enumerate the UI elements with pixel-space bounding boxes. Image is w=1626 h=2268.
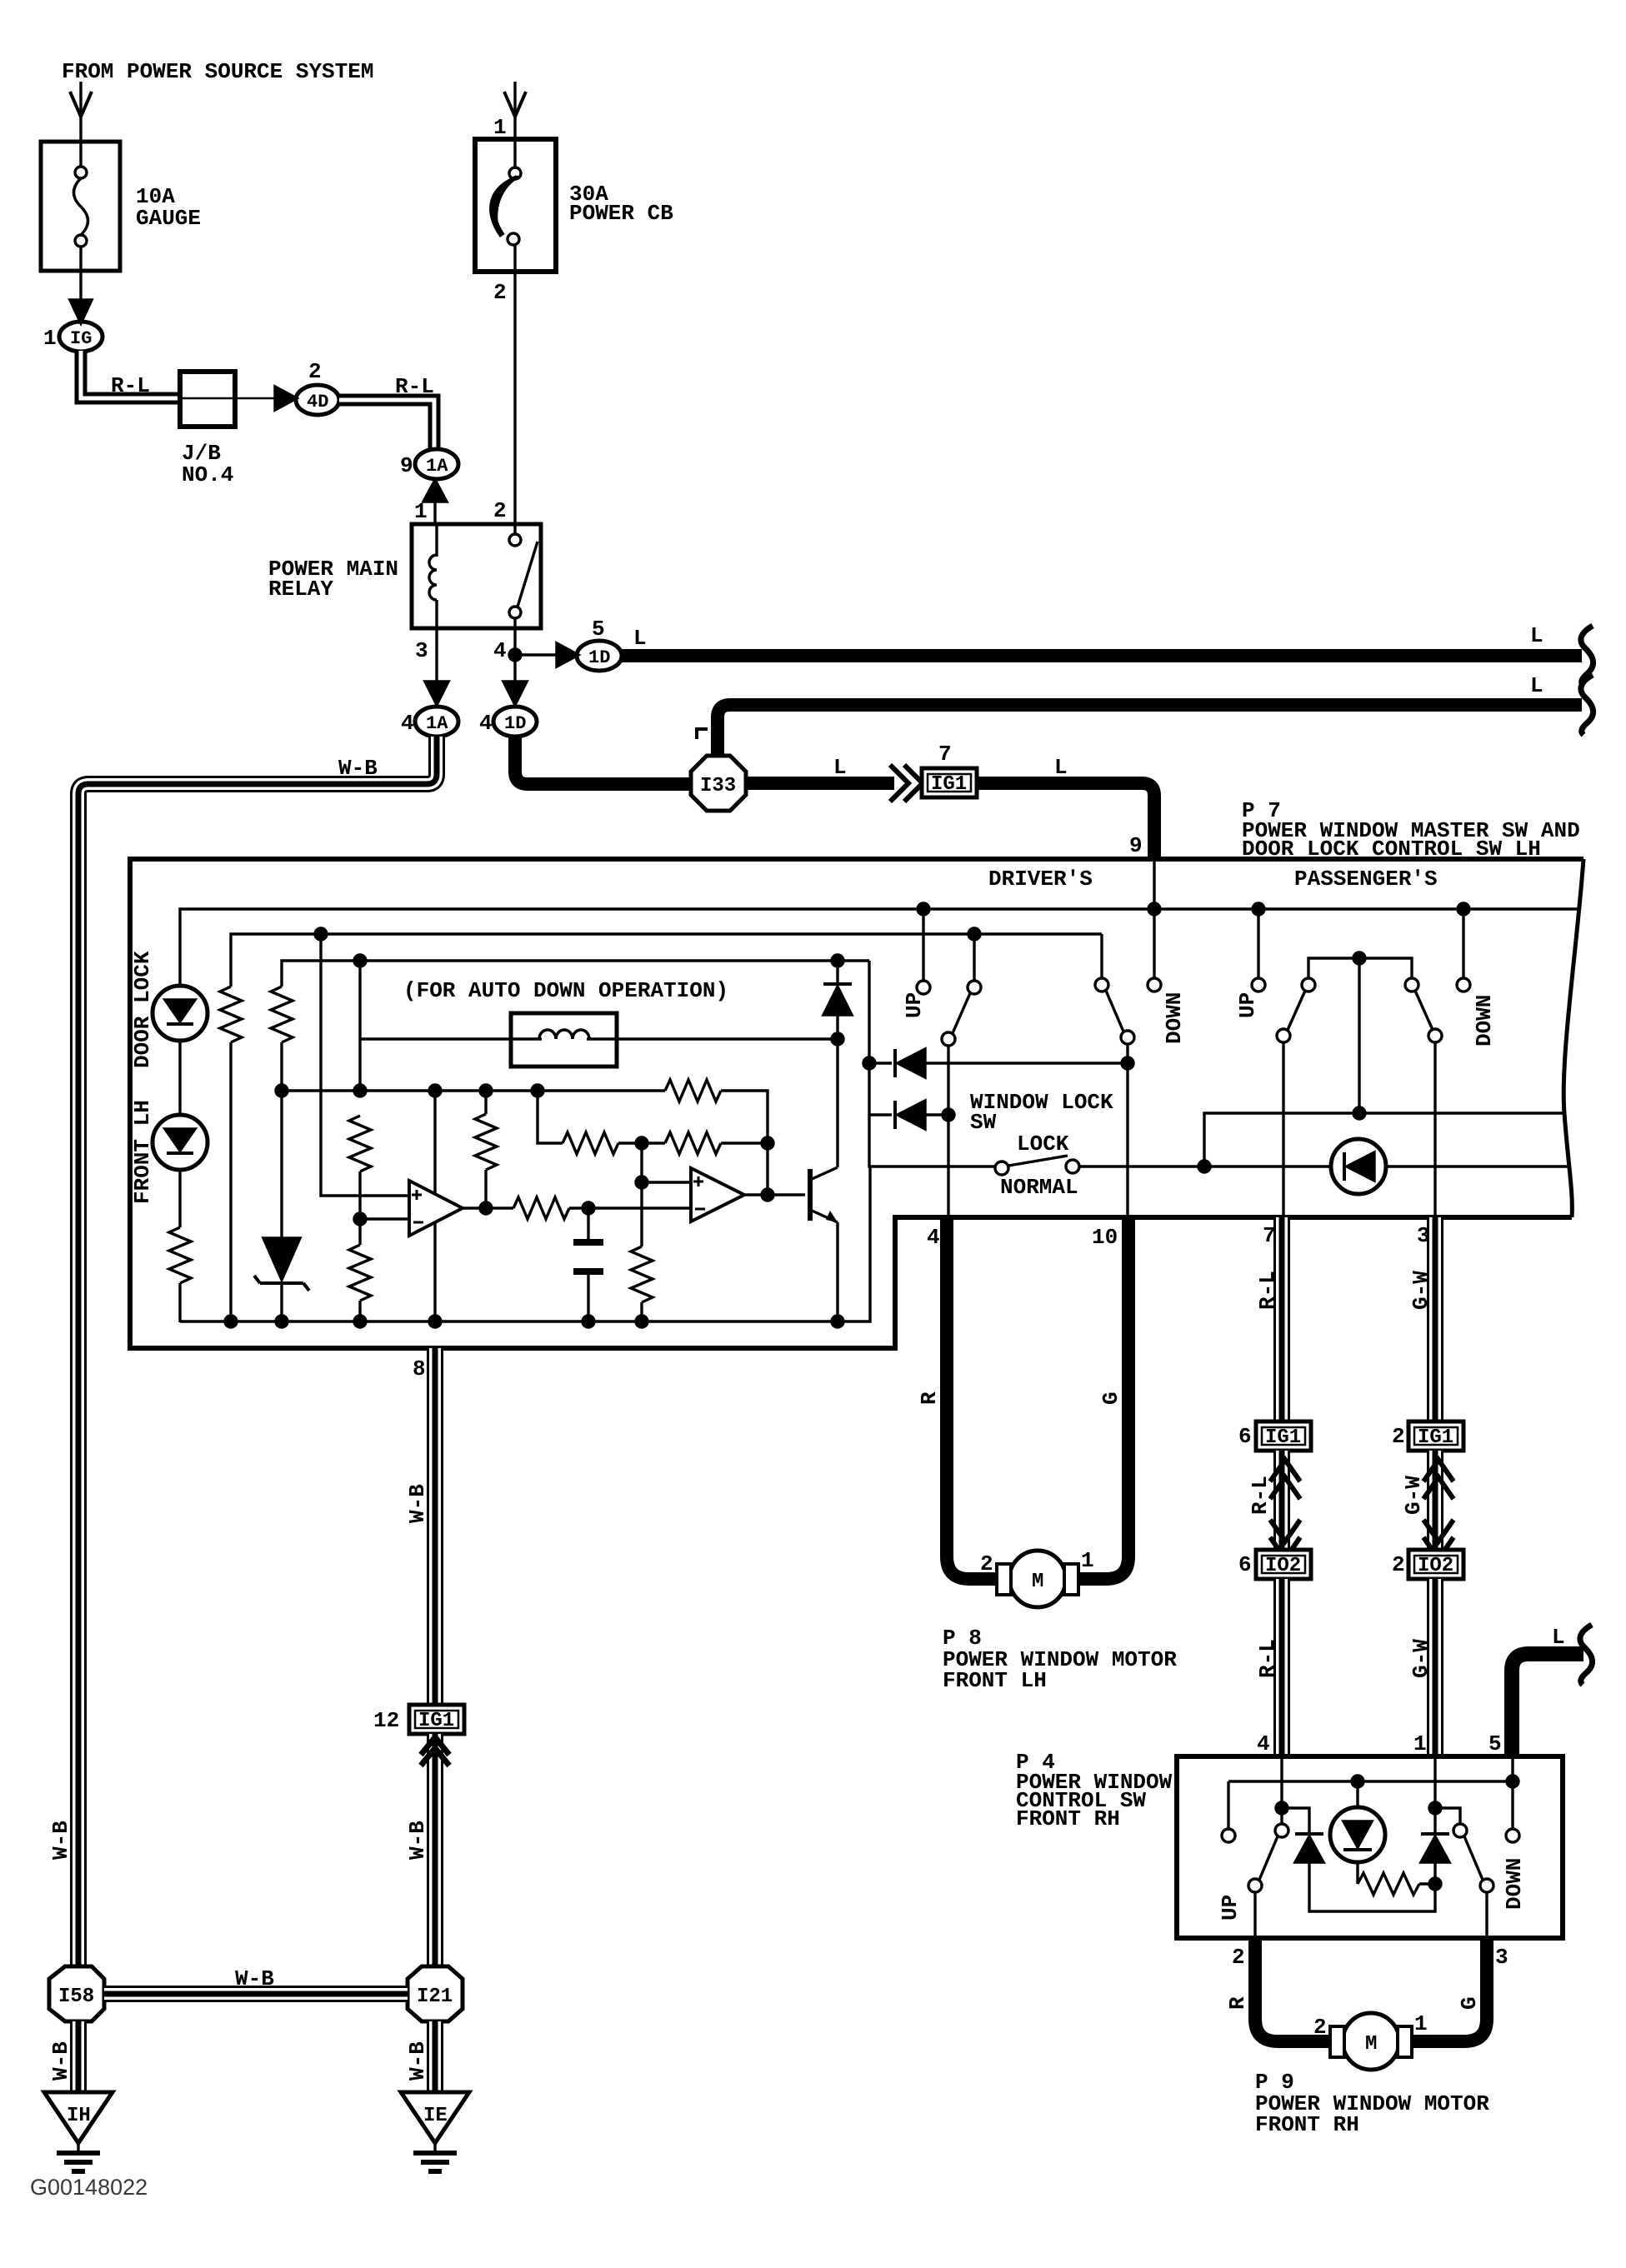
svg-text:3: 3 — [1495, 1945, 1508, 1970]
svg-text:4: 4 — [493, 638, 507, 663]
bus 1 (top supply bus) — [180, 909, 1578, 986]
connector I33 octagon — [691, 756, 746, 811]
arrow into IG — [70, 300, 92, 323]
chevron up into IG1 — [421, 1737, 449, 1755]
svg-text:FRONT LH: FRONT LH — [943, 1668, 1047, 1693]
driver switch arm left — [973, 941, 975, 981]
resistor R6 column 432 lower — [349, 1245, 371, 1301]
wire PTC to resistor — [1356, 1862, 1358, 1884]
bus 3 — [282, 961, 869, 987]
passenger UP stub — [1257, 909, 1259, 978]
wire pin3 column — [1433, 1042, 1436, 1217]
P4 diode D4 feed — [1282, 1808, 1309, 1832]
PTC circuit breaker (P4) — [1356, 1781, 1358, 1807]
junction dot output2 — [762, 1189, 773, 1201]
P4 pin4 entry — [1280, 1756, 1283, 1824]
svg-text:3: 3 — [415, 638, 428, 663]
connector IO2 (pin 2) — [1408, 1550, 1463, 1579]
svg-text:I21: I21 — [417, 1986, 453, 2008]
junction dot relay pin4 — [509, 649, 521, 661]
passenger feed riser — [1204, 1113, 1564, 1166]
svg-text:I58: I58 — [58, 1986, 94, 2008]
harness arc (line 1 end) — [1581, 626, 1593, 686]
svg-text:2: 2 — [980, 1551, 993, 1576]
svg-text:1: 1 — [43, 326, 57, 351]
op-amp U2 — [691, 1168, 744, 1221]
ground IE — [401, 2092, 469, 2143]
wire R-L double (IO2 to P4 pin 4) — [1273, 1579, 1290, 1756]
diode D5 — [1421, 1832, 1449, 1836]
wire pin7 column — [1282, 1042, 1284, 1217]
svg-text:6: 6 — [1238, 1552, 1252, 1577]
svg-text:DOWN: DOWN — [1162, 992, 1187, 1044]
junction dot D1/pin10 column — [1122, 1057, 1133, 1069]
junction dot lock/passenger feed — [1198, 1161, 1210, 1172]
junction dot D2/pin4 column — [943, 1109, 954, 1121]
svg-text:9: 9 — [1129, 833, 1143, 858]
connector I58 octagon — [49, 1966, 104, 2021]
svg-text:SW: SW — [970, 1110, 997, 1135]
svg-text:2: 2 — [308, 359, 322, 384]
coil L1 — [360, 1037, 542, 1040]
passenger pivot column — [1358, 958, 1360, 1113]
svg-text:1: 1 — [1414, 2011, 1428, 2036]
junction dot coil/diode/collector — [832, 1033, 843, 1045]
svg-text:L: L — [833, 755, 847, 780]
svg-text:10: 10 — [1092, 1225, 1118, 1250]
arrow down into 1D (lower) — [503, 682, 527, 705]
svg-text:W-B: W-B — [405, 1484, 430, 1523]
svg-text:4: 4 — [927, 1225, 940, 1250]
junction dot row2 mid — [636, 1137, 648, 1149]
P4 left stub — [1227, 1781, 1229, 1829]
wire relay pin4 down — [513, 628, 516, 683]
wire G-W double (pin3 to IG1) — [1427, 1217, 1443, 1421]
resistor R11 column 770 — [640, 1182, 643, 1246]
junction dot resistor/D5 — [1429, 1878, 1441, 1890]
connector IG1 (pin 2) — [1408, 1421, 1463, 1451]
svg-text:FRONT LH: FRONT LH — [130, 1100, 155, 1204]
junction dot bus4/432 — [354, 1085, 366, 1097]
svg-text:4: 4 — [401, 711, 414, 736]
svg-text:4: 4 — [1257, 1731, 1270, 1756]
connector IO2 (pin 6) — [1256, 1550, 1311, 1579]
svg-text:W-B: W-B — [338, 756, 378, 781]
junction dot opamp2 plus — [636, 1176, 648, 1188]
wire PTC to right edge — [1386, 1165, 1568, 1167]
junction dot pivot bus — [1353, 952, 1365, 964]
svg-text:FRONT RH: FRONT RH — [1016, 1806, 1120, 1831]
corner elbow mark — [697, 729, 708, 739]
junction dot bottom/706 — [583, 1316, 594, 1327]
wire pin4 column — [947, 1046, 949, 1217]
junction dot cap node — [583, 1202, 594, 1214]
wire R-L from 4D to 1A (thick with white core) — [339, 400, 434, 449]
svg-text:NO.4: NO.4 — [182, 462, 233, 487]
chevron arrows between IG1 and IO2 (G-W) — [1427, 1451, 1443, 1550]
svg-text:I33: I33 — [700, 775, 736, 797]
svg-text:L: L — [633, 626, 647, 651]
svg-text:2: 2 — [493, 498, 507, 523]
wire L from I33 to IG1 connector — [744, 777, 894, 790]
junction dot bus1/UP passenger — [1253, 903, 1264, 915]
svg-text:R-L: R-L — [1248, 1476, 1273, 1515]
junction dot bus1/pin9 — [1148, 903, 1160, 915]
relay box POWER MAIN RELAY — [412, 524, 541, 628]
P4 top bus — [1228, 1780, 1513, 1782]
PTC circuit breaker (P7) — [1331, 1139, 1386, 1194]
wire D4 anode to resistor node — [1309, 1862, 1435, 1911]
junction dot bottom/338 — [276, 1316, 288, 1327]
svg-text:UP: UP — [902, 992, 927, 1018]
junction dot bus2/opamp column — [315, 928, 327, 940]
flyback diode D3 — [836, 961, 838, 984]
window lock switch — [995, 1161, 1008, 1175]
junction dot output/R7 — [480, 1202, 492, 1214]
wire down arm to pin 3 — [1485, 1892, 1488, 1938]
bottom bus — [180, 1166, 870, 1321]
svg-text:RELAY: RELAY — [268, 577, 333, 602]
chevron arrows between IG1 and IO2 (R-L) — [1273, 1451, 1290, 1550]
transistor Q1 — [808, 1169, 813, 1221]
svg-text:1D: 1D — [504, 713, 526, 734]
bus 2 — [231, 934, 1102, 987]
relay switch — [513, 524, 516, 534]
diode D2 — [869, 1113, 892, 1116]
connector 1A with pin 9 — [415, 449, 458, 479]
svg-text:(FOR AUTO DOWN OPERATION): (FOR AUTO DOWN OPERATION) — [403, 978, 728, 1003]
ground IH — [44, 2092, 113, 2143]
feed arrow (left power source) — [70, 92, 92, 117]
wire R thick (pin4 to motor) — [947, 1217, 1005, 1579]
svg-text:2: 2 — [1232, 1945, 1245, 1970]
auto-down relay coil box — [511, 1013, 617, 1067]
wire bus4 corner column down — [538, 1091, 563, 1143]
svg-text:G: G — [1098, 1391, 1123, 1405]
svg-text:M: M — [1032, 1571, 1043, 1593]
wire W-B double (I58 to ground IH) — [70, 2021, 87, 2092]
wire pin9 inside box — [1153, 859, 1155, 909]
P4 down switch arm — [1453, 1824, 1467, 1837]
svg-text:L: L — [1054, 755, 1068, 780]
wire up arm to pin 2 — [1253, 1892, 1256, 1938]
wire to opamp1 minus — [358, 1171, 361, 1245]
svg-text:L: L — [1530, 623, 1543, 648]
svg-text:W-B: W-B — [405, 1821, 430, 1860]
resistor R4 (feedback on bus4) — [665, 1080, 721, 1102]
wire G-W double (IO2 to P4 pin 1) — [1427, 1579, 1443, 1756]
svg-text:4D: 4D — [307, 392, 328, 412]
arrow into 1D — [557, 643, 578, 667]
svg-text:M: M — [1365, 2033, 1377, 2056]
svg-text:9: 9 — [400, 453, 413, 478]
connector IG with pin 1 — [59, 322, 103, 352]
wire R thick (P4 pin2 to motor P9) — [1255, 1938, 1337, 2041]
junction dot opamp1 minus — [354, 1213, 366, 1225]
wire W-B double (IG1 to I21) — [427, 1734, 443, 1968]
passenger switch arm right — [1405, 978, 1418, 992]
arrow into 4D — [275, 387, 297, 410]
arrow up into 1A from relay pin 1 — [423, 480, 447, 502]
wire W-B double (I21 to ground IE) — [427, 2021, 443, 2092]
junction dot bottom/216 handled — [225, 1316, 237, 1327]
svg-text:1: 1 — [1413, 1731, 1427, 1756]
junction dot bottom/522 — [429, 1316, 441, 1327]
zener diode Z1 — [263, 1238, 300, 1280]
svg-text:1A: 1A — [426, 456, 448, 477]
wire fuse to IG — [79, 271, 82, 300]
svg-text:R-L: R-L — [1255, 1639, 1280, 1678]
svg-text:FROM POWER SOURCE SYSTEM: FROM POWER SOURCE SYSTEM — [62, 59, 373, 84]
connector IG1 with pin 7 — [922, 768, 977, 797]
driver switch arm right — [1095, 978, 1108, 992]
svg-text:R-L: R-L — [111, 373, 150, 398]
bus 4 — [282, 1089, 665, 1092]
P4 box — [1177, 1756, 1563, 1938]
wire pin10 column — [1126, 1044, 1128, 1217]
junction dot passenger pivot — [1353, 1107, 1365, 1119]
svg-text:7: 7 — [938, 742, 952, 767]
wire CB to relay pin 2 — [513, 272, 516, 524]
svg-text:2: 2 — [1313, 2015, 1327, 2040]
svg-text:IH: IH — [67, 2105, 91, 2127]
svg-text:12: 12 — [373, 1708, 399, 1733]
resistor R1 (LED column) — [169, 1227, 191, 1283]
junction dot bus1/DOWN passenger — [1458, 903, 1469, 915]
connector IG1 (pin 6) — [1256, 1421, 1311, 1451]
svg-text:LOCK: LOCK — [1017, 1132, 1069, 1156]
junction dot bus2/driver arm — [968, 928, 980, 940]
svg-text:IG1: IG1 — [931, 773, 967, 796]
wire feed to fuse — [79, 82, 82, 142]
svg-text:G00148022: G00148022 — [30, 2175, 148, 2200]
P4 pin1 entry — [1433, 1756, 1436, 1832]
svg-text:G-W: G-W — [1408, 1639, 1433, 1678]
wire G thick (P4 pin3 to motor P9) — [1405, 1938, 1487, 2041]
passenger switch arm left — [1302, 978, 1315, 992]
junction dot bus3/coil column — [354, 955, 366, 967]
svg-text:L: L — [1552, 1625, 1565, 1650]
opamp1 output wire — [463, 1206, 513, 1209]
connector 1D (lower) with pin 4 — [493, 707, 537, 737]
wire G thick (pin10 to motor) — [1070, 1217, 1128, 1579]
resistor R3 — [271, 987, 293, 1042]
svg-text:1D: 1D — [588, 647, 610, 668]
connector IG1 (pin 12) — [409, 1705, 464, 1734]
wire L thick (1D to right edge) — [622, 649, 1582, 662]
svg-text:1: 1 — [1081, 1548, 1094, 1573]
diode D4 — [1295, 1832, 1323, 1836]
svg-text:UP: UP — [1235, 992, 1260, 1018]
svg-text:IG1: IG1 — [1265, 1426, 1301, 1449]
svg-text:R-L: R-L — [1255, 1271, 1280, 1310]
connector 1A (lower) with pin 4 — [415, 707, 458, 737]
wire opamp1 plus feed — [321, 934, 409, 1196]
feed arrow (right power source) — [504, 92, 526, 117]
svg-text:IG1: IG1 — [1418, 1426, 1453, 1449]
motor P9 — [1343, 2013, 1399, 2070]
resistor R7 column 583 — [484, 1091, 487, 1114]
svg-text:5: 5 — [592, 617, 605, 642]
arrow down into 1A — [425, 682, 448, 705]
wire feed to circuit breaker — [513, 82, 516, 139]
opamp2 output wire — [744, 1193, 805, 1196]
svg-text:R: R — [1225, 1996, 1250, 2010]
wire W-B double (pin 8 down from P7) — [427, 1348, 443, 1705]
svg-text:DRIVER'S: DRIVER'S — [988, 867, 1093, 892]
connector 4D with pin 2 — [296, 385, 339, 415]
junction dot P4 bus/PTC — [1352, 1776, 1363, 1787]
resistor R8 (series) — [513, 1197, 569, 1219]
LED front LH illumination — [153, 1115, 208, 1170]
svg-text:UP: UP — [1218, 1895, 1243, 1921]
wire R-L from IG to J/B (thick with white core) — [81, 351, 180, 398]
lock feed column — [869, 961, 995, 1166]
junction dot feedback/output column — [762, 1137, 773, 1149]
wire L thick (harness to P4 pin 5) — [1512, 1654, 1583, 1756]
op-amp U1 — [409, 1181, 463, 1236]
harness arc (pin5) — [1580, 1625, 1593, 1685]
circuit breaker 30A POWER CB — [475, 139, 556, 272]
connector 1D with pin 5 — [577, 641, 622, 671]
resistor R2 — [220, 987, 242, 1042]
svg-text:IG: IG — [70, 328, 92, 349]
svg-text:L: L — [1530, 673, 1543, 698]
capacitor C1 — [587, 1208, 589, 1241]
wire L thick from 1D down and right to I33 — [515, 737, 693, 784]
wire LED column — [178, 1041, 181, 1115]
wire R-L double (pin7 to IG1) — [1273, 1217, 1290, 1421]
LED door lock indicator — [153, 986, 208, 1041]
svg-text:G-W: G-W — [1408, 1271, 1433, 1310]
svg-text:IO2: IO2 — [1418, 1555, 1453, 1577]
fuse 10A GAUGE — [41, 142, 120, 271]
svg-text:4: 4 — [479, 711, 493, 736]
wire to connector 1D (right) — [521, 653, 557, 656]
svg-text:DOWN: DOWN — [1502, 1858, 1527, 1910]
junction dot bus4/645 — [532, 1085, 543, 1097]
resistor R5 column 432 — [349, 1116, 371, 1171]
svg-text:FRONT RH: FRONT RH — [1255, 2112, 1359, 2137]
P4 right stub — [1511, 1756, 1513, 1829]
svg-text:8: 8 — [413, 1356, 426, 1381]
junction dot bus4/583 — [480, 1085, 492, 1097]
svg-text:R: R — [917, 1391, 942, 1405]
junction dot bus4/522 — [429, 1085, 441, 1097]
svg-text:1A: 1A — [426, 713, 448, 734]
wire bus3 column down — [358, 961, 361, 1091]
relay coil — [435, 524, 438, 557]
svg-text:POWER CB: POWER CB — [569, 201, 673, 226]
junction dot P4 bus/right stub — [1507, 1776, 1518, 1787]
svg-text:IO2: IO2 — [1265, 1555, 1301, 1577]
svg-text:PASSENGER'S: PASSENGER'S — [1294, 867, 1438, 892]
harness arc (line 2 end) — [1581, 675, 1593, 735]
connector I21 octagon — [408, 1966, 463, 2021]
wire column 522 (pin 8 feed) — [433, 1091, 436, 1321]
resistor R12 (P4) — [1358, 1873, 1419, 1895]
junction dot bus3/flyback diode — [832, 955, 843, 967]
junction dot bottom/emitter — [832, 1316, 843, 1327]
chevron into IG1 — [890, 765, 908, 802]
svg-text:W-B: W-B — [48, 1821, 73, 1860]
svg-text:G: G — [1457, 1996, 1482, 2010]
svg-text:GAUGE: GAUGE — [136, 206, 201, 231]
svg-text:W-B: W-B — [405, 2041, 430, 2081]
P4 up switch arm — [1275, 1824, 1288, 1837]
wire L thick line 2 (corner to right edge) — [718, 705, 1582, 758]
svg-text:6: 6 — [1238, 1424, 1252, 1449]
passenger pivot bus — [1308, 958, 1412, 978]
svg-text:2: 2 — [1392, 1424, 1405, 1449]
P4 down switch arm feed — [1435, 1808, 1460, 1824]
junction box J/B NO.4 — [180, 372, 235, 427]
svg-text:IG1: IG1 — [418, 1710, 454, 1732]
svg-text:NORMAL: NORMAL — [1000, 1175, 1078, 1200]
motor P8 — [1009, 1551, 1066, 1607]
svg-text:DOWN: DOWN — [1472, 995, 1497, 1047]
svg-text:W-B: W-B — [48, 2041, 73, 2081]
wire J/B to 4D — [235, 397, 275, 400]
junction dot bottom/432 — [354, 1316, 366, 1327]
svg-text:1: 1 — [493, 115, 507, 140]
junction dot bus1/UP driver — [918, 903, 929, 915]
wire relay pin3 to connector 1A — [435, 628, 438, 683]
svg-text:IE: IE — [423, 2105, 448, 2127]
P7 box outline with wavy right edge — [130, 859, 1583, 1348]
svg-text:2: 2 — [1392, 1552, 1405, 1577]
svg-text:1: 1 — [414, 499, 428, 524]
junction dot bus4 left end — [276, 1085, 288, 1097]
svg-text:R-L: R-L — [395, 374, 434, 399]
emitter wire to bottom bus — [836, 1222, 838, 1321]
svg-text:G-W: G-W — [1401, 1476, 1426, 1515]
resistor R9 (row2 left) — [563, 1132, 618, 1154]
junction dot bottom/770 — [636, 1316, 648, 1327]
wire row2 mid down to opamp2 plus — [642, 1143, 691, 1182]
wire L from IG1 to P7 pin 9 — [977, 783, 1154, 859]
svg-text:2: 2 — [493, 280, 507, 305]
driver UP stub — [922, 909, 924, 981]
passenger DOWN stub — [1462, 909, 1464, 978]
junction dot D1/lock column — [863, 1057, 875, 1069]
wire W-B from 1A to I58 (double line) — [78, 737, 437, 1966]
svg-text:5: 5 — [1488, 1731, 1502, 1756]
wire W-B double (I58 to I21) — [104, 1986, 408, 2002]
diode D1 — [869, 1062, 892, 1064]
driver DOWN stub — [1153, 909, 1155, 978]
resistor R10 (row2 right) — [665, 1132, 721, 1154]
wire lock to PTC — [1079, 1165, 1331, 1167]
svg-text:W-B: W-B — [235, 1966, 274, 1991]
